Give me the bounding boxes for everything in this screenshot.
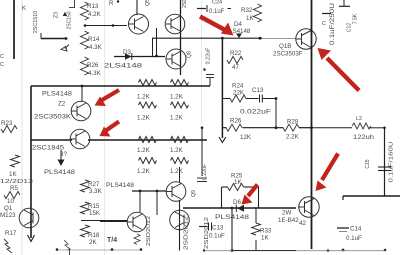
resistor R26a [81,57,89,75]
svg-text:2SD: 2SD [182,0,188,8]
resistor bank R a2 [139,102,157,108]
svg-text:C: C [322,21,326,27]
svg-text:10: 10 [7,198,14,205]
svg-text:2K: 2K [89,239,97,246]
red arrow A4 [100,122,120,137]
transistor QB [170,210,190,230]
svg-text:1.2K: 1.2K [137,147,151,154]
svg-text:D6: D6 [233,199,241,206]
diode D3 [125,53,132,60]
right vertical x=384.5 [384,128,386,196]
svg-text:R13: R13 [87,3,99,10]
svg-text:R33: R33 [260,228,272,235]
svg-text:0.1uF/160U: 0.1uF/160U [389,142,395,183]
wire x=222.4 vertical [221,38,223,138]
wire y=196 bottom right [343,195,400,197]
svg-text:Q5: Q5 [145,0,151,6]
svg-text:1.2K: 1.2K [170,94,184,101]
svg-text:42: 42 [299,220,306,227]
svg-text:47: 47 [232,64,239,71]
svg-text:22K: 22K [233,90,245,97]
svg-text:C: C [0,62,4,68]
svg-text:R15: R15 [88,203,100,210]
line x=202 with cap [201,128,203,176]
wire: Q5 base y=25 [85,25,128,27]
resistor R13 [81,2,89,20]
transistor QC [166,182,186,202]
wire y=191 [132,190,166,192]
faint continuation to Q1B [262,38,296,40]
svg-text:PLS4148: PLS4148 [42,91,73,98]
diode triangle small [63,12,67,16]
svg-text:1.2K: 1.2K [170,168,184,175]
transistor Q1 [19,208,39,228]
svg-text:R22: R22 [230,50,242,57]
wire [88,139,207,141]
svg-text:2W: 2W [282,210,291,217]
faint scan fold line middle-left [104,0,106,255]
wire y=127.7 [222,127,226,129]
cap C13 bottom [199,226,208,228]
svg-text:Q9: Q9 [191,190,197,197]
transistor Q12 [298,197,319,217]
cap C14 [342,196,344,226]
faint scan fold line centre [201,0,203,124]
red arrow A2 [318,48,360,91]
svg-text:1.2K: 1.2K [170,115,184,122]
svg-text:C: C [0,54,4,60]
svg-text:0.1uF/250U: 0.1uF/250U [330,3,336,45]
svg-text:4.3K: 4.3K [88,70,102,77]
transistor Q3 [70,129,90,149]
node bottom left of C14 [327,249,330,252]
resistor R30 [255,208,257,223]
wire x=152.5 drop [152,38,154,56]
resistor bank R b3 [171,137,189,143]
svg-text:Q8: Q8 [187,51,193,58]
svg-text:15K: 15K [89,210,101,217]
resistor bank R b4 [171,158,189,164]
node [221,37,224,40]
svg-text:2SC3503K: 2SC3503K [34,114,72,121]
svg-text:2SD2012: 2SD2012 [184,216,190,250]
svg-text:Z2: Z2 [58,101,66,108]
svg-text:0.22uF: 0.22uF [206,47,212,64]
svg-text:3.3K: 3.3K [89,188,103,195]
resistor bank R a4 [139,158,157,164]
svg-text:L2: L2 [356,116,362,122]
svg-text:1.2K: 1.2K [137,115,151,122]
svg-text:Q1: Q1 [4,205,13,212]
svg-text:0.022uF: 0.022uF [240,109,271,116]
svg-text:R26: R26 [230,118,242,125]
svg-text:1.2K: 1.2K [137,168,151,175]
svg-text:R: R [109,1,114,7]
wire: horizontal bus y=87.5 [31,85,210,87]
svg-text:1K: 1K [261,235,269,242]
svg-text:1K: 1K [246,15,254,22]
inductor wire y=127.8 right [312,127,353,129]
ground arrow symbol pointing down-left [61,45,69,52]
svg-text:1.2K: 1.2K [137,94,151,101]
wire: horizontal bus y=138.5 [31,139,72,141]
bottom mid wire y=208.5 [183,207,296,209]
diode below Q3 [60,150,62,160]
svg-text:2SC1510: 2SC1510 [33,11,39,33]
wire x=181 vertical through T2/T3 [180,0,182,75]
svg-text:12K: 12K [240,134,252,141]
resistor bank R b2 [171,102,189,108]
node [112,24,115,27]
red arrow A1 [200,17,234,36]
transistor T1 [129,14,149,34]
wire y=56.5 with D3 [114,56,165,58]
bottom rail segments [204,250,385,252]
right main rail [311,0,313,249]
svg-text:0.1uF: 0.1uF [209,233,225,240]
transistor T3 [166,49,186,69]
svg-text:T/4: T/4 [107,237,117,244]
svg-text:1K: 1K [9,171,17,178]
resistor small bottom [134,234,140,245]
svg-text:C13: C13 [212,225,224,232]
left-bottom resistor column [81,180,90,192]
ground arrow [219,137,226,143]
resistor bank R a3 [139,137,157,143]
svg-text:C24: C24 [212,0,222,6]
resistor bank R b1 [171,80,189,86]
red arrow A6 [316,154,339,192]
svg-text:2SD2012: 2SD2012 [146,216,152,246]
node bottom right [384,249,387,252]
svg-text:0.1uF: 0.1uF [209,9,225,15]
svg-text:2LS4148: 2LS4148 [104,63,143,70]
svg-text:K: K [22,6,26,12]
svg-text:M123: M123 [0,212,16,219]
cap plates near x=210 [206,74,214,76]
node bottom C14 [342,249,345,252]
svg-text:R5: R5 [10,185,18,192]
svg-text:2.2K: 2.2K [286,134,300,141]
red arrow A5 [242,185,258,205]
wire x=157 Q5 emitter drop [156,28,158,57]
svg-text:1.2K: 1.2K [170,147,184,154]
cap C15 [378,166,391,168]
wire x=137 Q5 collector [136,0,138,15]
wire: left bus rail x=31 [30,86,32,238]
ground arrow at rail bottom [28,235,35,242]
svg-text:0.22uF: 0.22uF [202,163,208,180]
svg-text:R17: R17 [5,230,17,237]
stub up at left end [40,33,42,39]
main horizontal wire y=38.2 [152,37,262,39]
svg-text:PLS4148: PLS4148 [106,182,135,189]
node top [117,0,119,2]
red arrow A3 [95,90,120,106]
wire stub above QC [179,167,181,183]
svg-text:R14: R14 [88,36,100,43]
svg-text:4.2K: 4.2K [88,11,102,18]
wire: tall left rail [13,0,15,59]
wire: top-left horizontal y=38.5 [41,38,66,40]
svg-text:R18: R18 [88,232,100,239]
svg-text:R26: R26 [87,62,99,69]
svg-text:C13: C13 [252,87,264,94]
top right cap group [322,13,331,15]
svg-text:R27: R27 [88,181,100,188]
small diagonal resistor [64,240,70,250]
corner tick [69,0,75,8]
svg-text:R24: R24 [232,83,244,90]
svg-text:2SC150: 2SC150 [67,11,73,29]
svg-text:C15: C15 [365,159,371,168]
faint scan fold line left [21,0,23,255]
transistor Q2 [71,101,91,121]
svg-text:4.3K: 4.3K [89,44,103,51]
node [155,55,158,58]
svg-text:PLS4148: PLS4148 [44,169,76,176]
node [259,37,262,40]
svg-text:Z3: Z3 [54,12,60,18]
svg-text:2SC3503F: 2SC3503F [273,51,303,58]
wire: stub up at x=210 [209,78,211,86]
svg-text:R32: R32 [241,7,253,14]
node [65,37,68,40]
svg-text:7.5K: 7.5K [353,13,359,24]
transistor T2 [165,14,185,34]
node [84,24,87,27]
svg-text:1E-B42: 1E-B42 [278,217,299,224]
svg-text:D3: D3 [123,49,131,56]
svg-text:D4: D4 [234,21,242,28]
svg-text:0.1uF: 0.1uF [346,235,362,242]
resistor bank R a1 [139,80,157,86]
transistor QA [127,212,147,232]
resistor R14 [81,31,89,49]
svg-text:122uh: 122uh [353,134,374,141]
svg-text:Q1B: Q1B [279,43,291,50]
svg-text:C14: C14 [350,226,362,233]
transistor Q1B [296,29,316,49]
